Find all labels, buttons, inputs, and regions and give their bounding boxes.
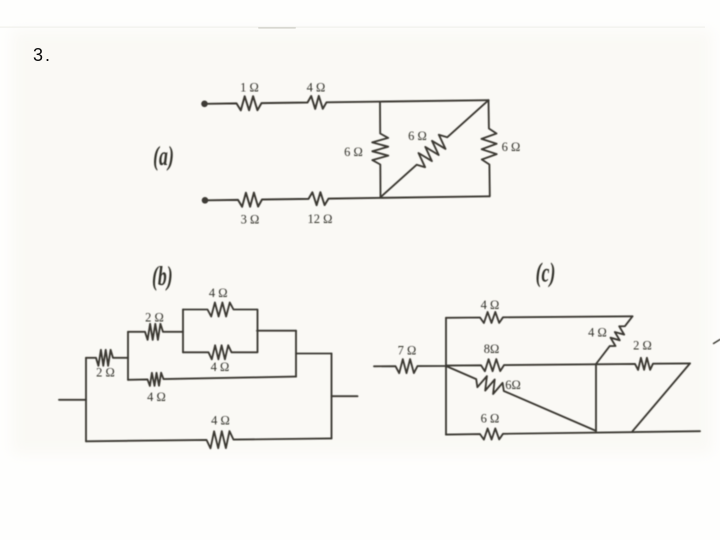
- svg-text:6 Ω: 6 Ω: [344, 145, 363, 159]
- svg-text:4 Ω: 4 Ω: [147, 390, 166, 404]
- svg-text:4 Ω: 4 Ω: [481, 298, 500, 312]
- svg-text:3 Ω: 3 Ω: [241, 212, 260, 226]
- svg-text:6 Ω: 6 Ω: [408, 129, 427, 143]
- svg-text:6 Ω: 6 Ω: [502, 140, 521, 154]
- svg-text:(b): (b): [152, 261, 173, 292]
- svg-text:1 Ω: 1 Ω: [240, 80, 259, 94]
- svg-text:2 Ω: 2 Ω: [633, 338, 652, 352]
- svg-text:(c): (c): [536, 257, 556, 288]
- svg-text:12 Ω: 12 Ω: [308, 212, 333, 226]
- svg-text:2 Ω: 2 Ω: [145, 310, 164, 324]
- svg-text:8Ω: 8Ω: [484, 342, 500, 356]
- svg-text:2 Ω: 2 Ω: [96, 365, 115, 379]
- svg-text:(a): (a): [153, 141, 174, 172]
- svg-text:6Ω: 6Ω: [505, 378, 521, 392]
- svg-text:4 Ω: 4 Ω: [211, 360, 230, 374]
- svg-text:4 Ω: 4 Ω: [209, 286, 228, 300]
- svg-text:4 Ω: 4 Ω: [211, 413, 230, 427]
- svg-text:6 Ω: 6 Ω: [481, 411, 500, 425]
- svg-text:7 Ω: 7 Ω: [398, 343, 417, 357]
- svg-text:4 Ω: 4 Ω: [307, 80, 326, 94]
- svg-text:4 Ω: 4 Ω: [588, 325, 607, 339]
